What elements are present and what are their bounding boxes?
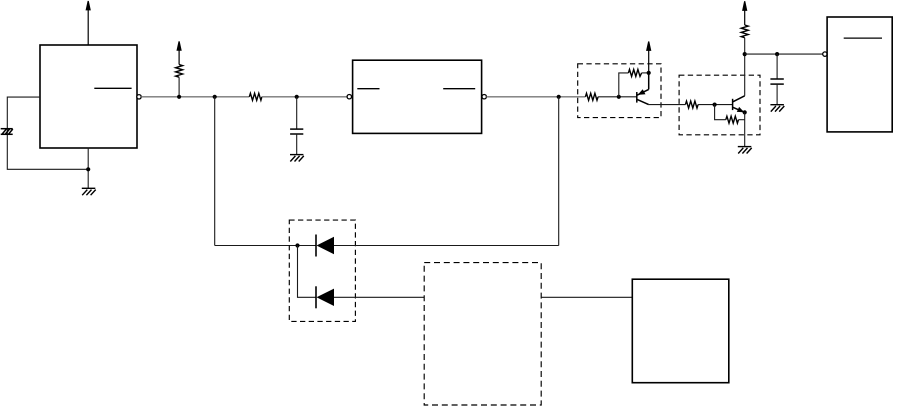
wire (mid box out to stage 1) (486, 96, 585, 98)
resistor (stage1 base series) (585, 93, 598, 100)
block U3 (right box) (827, 17, 892, 132)
pin label overbar inside U1 (94, 87, 131, 89)
dashed box (control block) (424, 263, 541, 405)
dashed box (diode pair) (289, 220, 355, 321)
block U4 (bottom right box) (632, 279, 729, 383)
wire (Q1 collector to stage 2) (649, 104, 686, 106)
transistor Q2 (NPN) (733, 96, 745, 113)
wire (R to emitter rail) (739, 119, 745, 121)
wire (base junction down to R) (715, 105, 726, 120)
pin label overbar (U3) (844, 37, 882, 39)
wire (feedback right vertical) (558, 97, 560, 246)
capacitor (output) (770, 79, 783, 84)
node (feedback tap) (213, 95, 217, 99)
pin circle (mid box output) (482, 95, 486, 99)
dashed box (stage 2) (679, 75, 760, 135)
wire (Q2 collector up) (744, 54, 746, 96)
node (cap tap) (295, 95, 299, 99)
arrowhead (Q2 emitter, points out) (737, 107, 745, 112)
wire (control box to U4) (541, 296, 632, 298)
resistor R (series, main line) (249, 93, 262, 100)
arrowhead (Q1 emitter, points to base) (638, 89, 646, 95)
diode D1 (316, 235, 334, 257)
wire (U1 bottom pin) (87, 148, 89, 189)
chassis symbol (on left wire) (1, 129, 13, 135)
power arrow (stage 1) (647, 42, 651, 73)
resistor (stage2 base series) (685, 101, 698, 108)
wire (feedback bottom run to D1) (215, 245, 316, 247)
wire (base junction up) (619, 73, 629, 97)
ground (below capacitor) (290, 155, 304, 162)
resistor (Q1 feedback) (628, 69, 641, 76)
wire (D2 anode to control box) (334, 296, 424, 298)
node (output cap tap) (775, 52, 779, 56)
node (collector rail junction) (743, 52, 747, 56)
wire (Q2 emitter down) (744, 112, 746, 146)
wire (feedback R to emitter rail) (642, 72, 649, 74)
wire (cap top lead) (296, 97, 298, 129)
node (Q2 emitter junction) (743, 110, 747, 114)
block U2 (middle box) (353, 60, 482, 133)
wire (load R to junction) (744, 38, 746, 54)
wire (R to Q2 base) (698, 104, 733, 106)
node (pull-up junction) (177, 95, 181, 99)
resistor (Q2 base-emitter) (726, 116, 739, 123)
block U1 (left box) (40, 45, 137, 148)
power arrow (pull-up rail) (177, 41, 181, 64)
node (diode junction) (295, 243, 299, 247)
power arrow (top right rail) (743, 1, 747, 25)
resistor (pull-up) (176, 65, 183, 78)
resistor (collector load) (741, 25, 748, 38)
node (Q2 base junction) (713, 103, 717, 107)
wire (cap2 bottom lead) (776, 84, 778, 105)
capacitor (main line bypass) (290, 129, 303, 134)
wire (junction down to D2) (298, 246, 316, 298)
dashed box (stage 1) (578, 64, 661, 118)
pin label overbar (U2 input) (357, 88, 379, 90)
pin circle (mid box input) (347, 95, 351, 99)
wire (U1 left side loop) (7, 97, 88, 169)
ground (below output cap) (770, 105, 784, 112)
power arrow (above U1) (86, 1, 90, 45)
wire (cap bottom lead) (296, 134, 298, 155)
wire (rail to output box) (745, 53, 823, 55)
ground (Q2 emitter) (738, 147, 752, 154)
node (Q1 top junction) (647, 71, 651, 75)
wire (D1 anode to right feedback) (334, 245, 559, 247)
transistor Q1 (PNP) (637, 73, 649, 105)
node (right feedback tap) (557, 95, 561, 99)
wire (pull-up to main) (178, 77, 180, 97)
ground (below U1) (82, 188, 96, 195)
node (Q1 base junction) (617, 95, 621, 99)
wire (R to mid box) (262, 96, 347, 98)
pin label overbar (U2 output) (443, 88, 475, 90)
node (junction U1 bottom) (86, 167, 90, 171)
wire (feedback left vertical) (214, 97, 216, 246)
wire (cap2 top lead) (776, 54, 778, 79)
diode D2 (316, 286, 334, 308)
pin circle (U1 output) (137, 95, 141, 99)
wire (R to Q1 base) (598, 96, 637, 98)
pin circle (right box input) (823, 52, 827, 56)
wire (main signal, U1 out to R1) (141, 96, 249, 98)
